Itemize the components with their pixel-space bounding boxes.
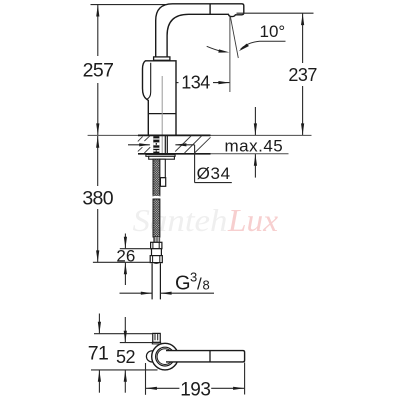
deck hatching left (138, 136, 150, 153)
dimension 26 down arrow (124, 234, 126, 249)
deck top extension line left (88, 134, 138, 136)
dimension 380 line (97, 136, 99, 186)
dimension 237 arrow down (301, 123, 304, 135)
svg-text:Ø34: Ø34 (197, 164, 231, 183)
svg-text:Santeh: Santeh (133, 202, 228, 238)
dimension 26 up arrow (124, 263, 126, 285)
plan view tab base (152, 342, 160, 344)
hex nut bottom shadow (153, 263, 160, 264)
dimension 193 left extension line (145, 363, 147, 395)
max45 down arrow (254, 107, 256, 135)
plan view outer circle (152, 343, 179, 370)
shank tube lines (164, 136, 166, 154)
svg-text:193: 193 (180, 379, 210, 400)
svg-text:237: 237 (288, 65, 317, 85)
flange bar under deck (146, 154, 175, 156)
svg-text:134: 134 (181, 73, 210, 93)
dimension 193 right extension line (244, 363, 246, 395)
max45 underline extension (211, 153, 289, 155)
threaded shank rod in deck (153, 136, 159, 154)
svg-text:380: 380 (82, 188, 113, 210)
dimension 71 up arrow (98, 370, 100, 393)
svg-text:71: 71 (88, 343, 109, 365)
svg-text:max.45: max.45 (225, 137, 284, 156)
braided hose upper segment (153, 159, 160, 196)
svg-text:Lux: Lux (227, 202, 278, 238)
dimension 237 arrow up (301, 14, 304, 26)
svg-text:257: 257 (83, 60, 114, 82)
dimension 26 top extension line (120, 248, 152, 250)
body sensor lens inner line (147, 63, 151, 100)
hose break gap (152, 196, 160, 197)
dimension 257 arrow down (96, 123, 99, 135)
diameter 34 underline (195, 182, 232, 184)
plan view small back circle (146, 351, 157, 362)
secondary tube below nut (159, 159, 165, 178)
tube end fitting (160, 178, 165, 187)
dimension 134 right arrow (213, 82, 229, 84)
10 deg tilted stream line (230, 17, 238, 58)
dimension 380 arrow down (96, 250, 99, 262)
dimension 257 line (97, 5, 99, 56)
dimension 71 down arrow (98, 314, 100, 334)
dimension 380 arrow up (96, 136, 99, 148)
diameter 34 right arrow and leader (175, 144, 194, 146)
braided hose lower segment (153, 199, 160, 237)
dimension 193 left arrow (146, 387, 180, 389)
plan view tab (153, 333, 161, 342)
svg-text:26: 26 (116, 246, 135, 265)
dimension 193 right arrow (211, 387, 244, 389)
spout joint line (209, 4, 211, 14)
body mid joint line (148, 113, 176, 115)
plan view: 52 top extension line (120, 342, 153, 344)
dimension 52 down arrow (124, 317, 126, 342)
dimension 257 arrow up (96, 5, 99, 17)
svg-text:/: / (197, 275, 202, 294)
watermark SantehLux (133, 202, 279, 238)
plan view spout arm (166, 351, 245, 362)
svg-text:52: 52 (116, 347, 136, 367)
hose collar (151, 242, 162, 248)
dimension 52 up arrow (124, 370, 126, 393)
svg-text:8: 8 (203, 278, 210, 293)
dimension 134 left arrow (163, 82, 178, 84)
deck top line (138, 134, 211, 136)
top extension line (spout top level) (91, 4, 171, 6)
10 deg vertical reference line (229, 17, 231, 92)
mounting nut under deck (149, 156, 175, 159)
deck hatching right (175, 136, 210, 153)
collar under tube (154, 57, 170, 60)
angle arc left with arrowhead (207, 46, 223, 51)
G 3/8 left arrow (120, 292, 152, 294)
deck top extension line right (211, 134, 312, 136)
G3/8 threaded pipe (152, 263, 160, 299)
crimp sleeve (153, 237, 160, 242)
spout and vertical tube outline (156, 4, 244, 57)
body centerline (161, 76, 163, 153)
angle arc right leader with arrowhead (241, 41, 286, 49)
svg-text:G: G (175, 273, 191, 295)
svg-text:10°: 10° (260, 22, 286, 41)
380 bottom tick line (93, 261, 150, 263)
plan view inner circles (156, 347, 175, 366)
diameter 34 left arrow (128, 144, 150, 146)
plan view: 71 top extension line (94, 333, 153, 335)
deck bottom line (138, 153, 211, 155)
max45 up arrow (254, 154, 256, 178)
faucet body (143, 61, 177, 136)
dimension 237 line (302, 13, 304, 63)
hex nut (150, 256, 162, 263)
G 3/8 right arrow and leader (161, 292, 214, 294)
plan view: bottom extension line (91, 369, 158, 371)
tip extension line (237, 12, 314, 14)
connector body (152, 249, 162, 256)
arm joint line (209, 351, 211, 362)
